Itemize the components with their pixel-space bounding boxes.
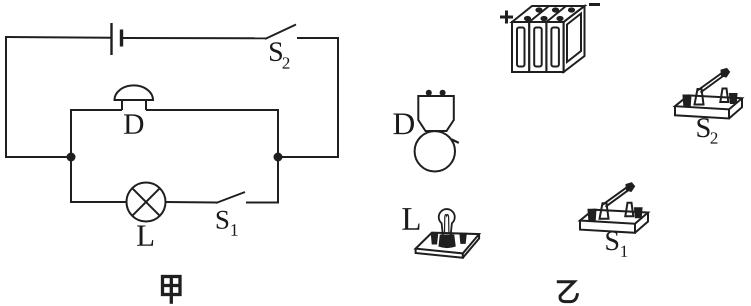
lamp base plate top face xyxy=(416,233,480,254)
wire top-left from left corner to battery xyxy=(6,36,111,39)
S2 base plate front and side faces xyxy=(675,98,742,118)
wire lamp to switch S1 xyxy=(166,201,218,204)
battery terminal dots xyxy=(524,7,575,21)
knife switch S1 (physical) xyxy=(580,183,648,233)
battery cell short thick plate xyxy=(120,30,123,47)
wire inner left vertical xyxy=(70,110,72,203)
S2 right terminal xyxy=(730,94,737,103)
S1 base plate top face xyxy=(580,210,648,224)
wire bell to inner top right xyxy=(146,109,279,111)
wire inner bottom left to lamp xyxy=(70,201,126,203)
battery cell 2 slot xyxy=(534,28,542,67)
battery top divider 1 xyxy=(529,6,549,22)
label D (physical bell) xyxy=(393,114,414,135)
battery cell long plate xyxy=(110,23,112,55)
battery top face xyxy=(512,6,585,22)
label jia (figure 1 caption) xyxy=(162,276,181,304)
battery front face cell 1 xyxy=(512,22,529,72)
wire from battery to switch S2 xyxy=(122,37,266,39)
S1 lever handle tip xyxy=(627,183,635,191)
battery front face cell 3 xyxy=(546,22,563,72)
lamp binding post left xyxy=(431,234,437,244)
S1 lever bar xyxy=(603,187,630,207)
battery front face cell 2 xyxy=(529,22,546,72)
lamp socket xyxy=(439,235,455,248)
switch S2 lever xyxy=(265,25,296,40)
wire right junction to outer loop xyxy=(278,156,339,158)
bell body box xyxy=(418,96,454,131)
label L (schematic lamp) xyxy=(137,226,153,246)
battery plus sign xyxy=(500,11,513,24)
wire outer right vertical xyxy=(337,37,339,158)
lamp binding post right xyxy=(460,233,466,243)
junction node right xyxy=(274,153,283,162)
S2 lever handle tip xyxy=(722,69,730,77)
S1 left terminal xyxy=(589,210,596,220)
knife switch S2 (physical) xyxy=(675,69,742,119)
junction node left xyxy=(67,153,76,162)
S2 base plate top face xyxy=(675,95,742,109)
lamp on base (physical) L xyxy=(416,233,480,258)
battery top divider 2 xyxy=(546,6,566,22)
label S1 (physical switch) xyxy=(606,231,627,257)
label S2 (schematic switch) xyxy=(270,42,289,68)
S2 right post xyxy=(720,89,728,103)
battery cell 3 slot xyxy=(551,28,559,67)
S1 base plate front and side faces xyxy=(580,213,648,233)
bell D symbol xyxy=(115,85,154,100)
electric bell (physical) D xyxy=(415,96,459,172)
switch S1 lever xyxy=(216,192,245,203)
battery right face xyxy=(564,6,585,72)
S2 lever bar xyxy=(698,73,725,93)
label S2 (physical switch) xyxy=(697,118,717,143)
lamp filament wires xyxy=(445,215,449,233)
battery pack (physical) xyxy=(512,6,585,72)
S2 pivot post xyxy=(695,89,704,105)
battery minus sign xyxy=(589,3,600,6)
wire outer left vertical xyxy=(5,36,7,157)
S1 pivot post xyxy=(600,203,609,219)
lamp base plate right edge xyxy=(463,234,479,258)
battery cell 1 slot xyxy=(517,28,525,67)
lamp glass bulb xyxy=(439,209,455,235)
S1 right terminal xyxy=(635,208,642,217)
label D (schematic bell) xyxy=(124,114,143,133)
wire inner top to bell xyxy=(70,109,122,111)
label S1 (schematic switch) xyxy=(217,211,238,236)
battery right face inner frame xyxy=(567,14,581,63)
label L (physical lamp) xyxy=(402,208,419,230)
wire from S2 contact to top-right corner xyxy=(297,37,339,39)
label yi (figure 2 caption) xyxy=(557,282,578,302)
bell striker tick xyxy=(452,139,459,143)
wire inner right vertical xyxy=(277,110,279,203)
bell gong circle xyxy=(415,131,455,171)
S2 left terminal xyxy=(684,96,691,106)
S1 right post xyxy=(625,203,633,217)
wire bottom-left horizontal to left junction xyxy=(5,156,71,158)
bell terminal dots xyxy=(426,90,446,96)
wire S1 contact to inner right xyxy=(246,202,279,204)
lamp L symbol xyxy=(127,183,166,222)
lamp base plate front edge xyxy=(416,249,463,258)
